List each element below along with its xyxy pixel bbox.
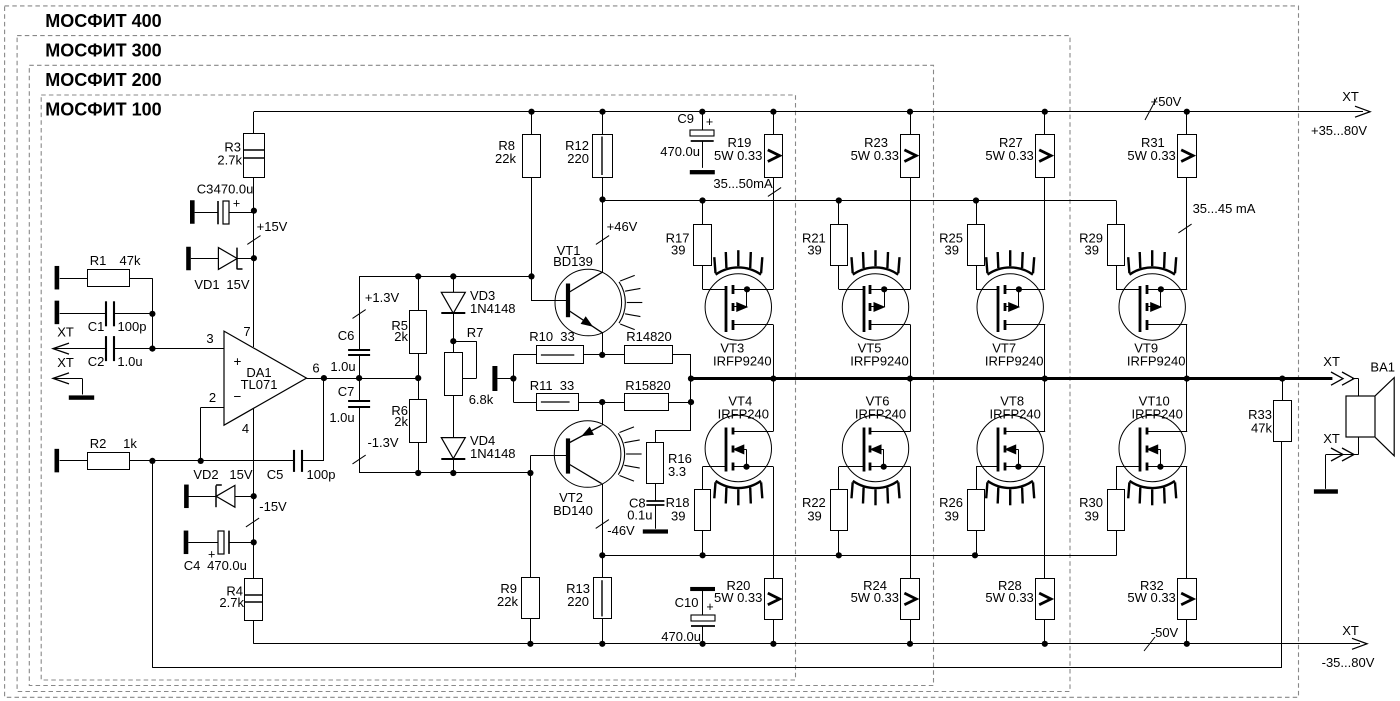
svg-text:+50V: +50V [1151,94,1182,109]
XT terminal input [53,325,74,355]
resistor R24 0.33 5W [851,578,920,620]
svg-text:C6: C6 [338,328,355,343]
capacitor C5 100p [267,450,336,482]
wire feedback return [152,442,1281,668]
wire R15 to bus [668,402,691,404]
svg-text:+: + [706,115,713,129]
node 35...50mA label [713,176,781,196]
wire R13 to -50V rail [602,619,604,644]
svg-text:C10: C10 [675,595,699,610]
resistor R6 2k [391,400,426,443]
wire VT2 base [530,456,566,578]
svg-text:22k: 22k [497,594,518,609]
svg-text:XT: XT [1323,354,1340,369]
terminal bar VD1 [186,247,191,271]
wire R22 gate path [839,467,864,556]
diode VD4 1N4148 [441,433,515,461]
svg-text:100p: 100p [307,467,336,482]
wire bus to speaker [1352,379,1359,396]
wire VT6 drain to bus [910,379,912,432]
svg-text:3.3: 3.3 [668,464,686,479]
capacitor C7 1.0u [329,384,370,425]
resistor R19 0.33 5W [714,135,783,178]
XT terminal -35...80V [1322,623,1375,670]
wire VD4 [453,395,455,437]
wire VT2 collector to -46V rail [599,484,605,559]
wire VT8 drain to bus [1044,379,1046,432]
ground speaker return [1314,489,1338,493]
module boundary МОСФИТ 100 [41,95,795,680]
wire VD3 [453,276,455,292]
wire to input ground [53,378,83,394]
svg-text:5W 0.33: 5W 0.33 [851,590,899,605]
ground C9 [690,170,715,174]
resistor R15 820 [625,378,671,411]
wire R24 column [910,467,912,644]
wire +50V rail [254,109,1363,115]
svg-text:5W 0.33: 5W 0.33 [714,148,762,163]
svg-text:2k: 2k [394,329,408,344]
svg-text:2.7k: 2.7k [219,595,244,610]
svg-text:15V: 15V [226,277,249,292]
svg-text:470.0u: 470.0u [660,144,700,159]
resistor R3 2.7k [217,134,264,178]
wire C5 to op-amp output [302,378,324,461]
wire R3 top to +50V rail [253,112,255,134]
wire R19 column [773,112,775,290]
resistor R20 0.33 5W [714,578,783,620]
svg-text:39: 39 [945,243,959,258]
wire bias top row [359,273,535,349]
svg-text:470.0u: 470.0u [207,558,247,573]
svg-text:IRFP9240: IRFP9240 [1127,354,1186,369]
terminal bar C3 [190,200,195,224]
svg-text:35...45 mA: 35...45 mA [1193,201,1256,216]
node 35...45 mA label [1178,201,1255,233]
ground C10 [690,587,715,591]
wire R27 column [1044,112,1046,290]
transistor VT2 BD140 [553,421,621,518]
svg-text:15V: 15V [229,467,252,482]
svg-text:C3: C3 [197,182,214,197]
svg-text:100p: 100p [118,319,147,334]
resistor R9 22k [497,578,539,619]
svg-text:+15V: +15V [257,219,288,234]
svg-text:R1: R1 [90,253,107,268]
node -15V label [246,499,287,527]
svg-text:-46V: -46V [607,523,635,538]
wire -50V rail [254,641,1360,647]
svg-text:39: 39 [945,509,959,524]
resistor R14 820 [625,329,673,364]
svg-text:6.8k: 6.8k [469,392,494,407]
wire -46V gate rail [602,552,1116,558]
wire op-amp pin 2 to R2 node [201,407,225,461]
svg-text:2: 2 [209,390,216,405]
resistor R33 47k [1248,401,1291,442]
svg-text:1.0u: 1.0u [329,410,354,425]
svg-text:IRFP9240: IRFP9240 [985,354,1044,369]
svg-text:5W 0.33: 5W 0.33 [1127,148,1175,163]
wire VT5 drain to bus [910,325,912,379]
wire op-amp output [307,375,422,381]
svg-text:-15V: -15V [259,499,287,514]
ground C8 [643,529,668,533]
capacitor C1 100p [88,301,147,334]
diode VD2 zener 15V [188,467,253,507]
svg-text:1.0u: 1.0u [117,354,142,369]
svg-text:47k: 47k [1251,421,1272,436]
resistor R11 33 [530,378,579,411]
capacitor C6 1.0u [330,328,370,374]
svg-text:-1.3V: -1.3V [367,435,398,450]
wire VT2 emitter to R11/R15 node [602,402,604,425]
wire R26 gate path [976,467,998,556]
wire R28 column [1044,467,1046,644]
resistor R30 39 [1079,490,1124,531]
svg-text:BD139: BD139 [553,254,593,269]
resistor R16 3.3 [647,443,692,484]
svg-text:BA1: BA1 [1370,360,1395,375]
wire R31 column [1186,112,1188,290]
svg-text:R11 33: R11 33 [530,378,575,393]
resistor R1 47k [88,253,141,287]
XT terminal speaker return [1323,431,1354,461]
resistor R32 0.33 5W [1127,578,1196,620]
svg-text:1N4148: 1N4148 [470,446,516,461]
wire R29 gate path [1116,201,1140,290]
svg-text:39: 39 [1085,243,1099,258]
resistor R31 0.33 5W [1127,135,1196,178]
wire R12 to VT1 collector [599,112,605,273]
wire C7 down to bias bottom row [359,407,361,473]
svg-text:+: + [234,354,242,369]
node +1.3V label [353,290,400,318]
svg-text:C7: C7 [338,384,355,399]
transistor VT7 IRFP9240 [977,274,1045,369]
resistor R29 39 [1079,225,1124,266]
wire input to op-amp pin 3 [53,346,224,352]
svg-text:47k: 47k [120,253,141,268]
wire R17 gate path [703,201,727,290]
resistor R13 220 [566,578,611,619]
resistor R17 39 [666,225,712,266]
wire R2 row [60,458,294,464]
svg-text:R10 33: R10 33 [529,329,575,344]
svg-text:2.7k: 2.7k [217,153,242,168]
speaker BA1 [1346,360,1395,456]
heatsink VT3 [716,267,761,274]
svg-text:IRFP9240: IRFP9240 [713,354,772,369]
wire R8 column [532,112,568,301]
terminal bar driver input [492,366,497,391]
svg-text:BD140: BD140 [553,503,593,518]
heatsink VT8 [988,481,1033,488]
wire R9 to -50V rail [530,619,532,644]
svg-text:5W 0.33: 5W 0.33 [851,148,899,163]
svg-text:39: 39 [807,509,821,524]
svg-text:-35...80V: -35...80V [1322,655,1375,670]
wire +15V column [251,177,257,347]
resistor R23 0.33 5W [851,135,920,178]
svg-text:TL071: TL071 [241,377,278,392]
capacitor C4 470.0u [184,531,254,573]
transistor VT10 IRFP240 [1119,394,1187,482]
svg-text:VD1: VD1 [194,277,219,292]
svg-text:3: 3 [206,331,213,346]
svg-text:XT: XT [1342,89,1359,104]
resistor R22 39 [802,490,848,531]
svg-text:+35...80V: +35...80V [1311,123,1367,138]
svg-text:C5: C5 [267,467,284,482]
resistor R18 39 [666,490,711,531]
svg-text:470.0u: 470.0u [214,182,254,197]
wire R30 gate path [1116,467,1140,556]
wire R23 column [910,112,912,290]
svg-text:5W 0.33: 5W 0.33 [985,148,1033,163]
heatsink VT1 [619,282,625,323]
svg-text:R15820: R15820 [625,378,671,393]
resistor R25 39 [939,225,984,266]
svg-text:C4: C4 [184,558,201,573]
heatsink VT9 [1130,267,1175,274]
svg-text:МОСФИТ 400: МОСФИТ 400 [45,11,161,31]
svg-text:220: 220 [567,594,589,609]
svg-text:220: 220 [567,151,589,166]
XT terminal output [1323,354,1354,385]
wire R21 gate path [839,201,864,290]
svg-text:МОСФИТ 100: МОСФИТ 100 [45,100,161,120]
wire R1 to node [60,278,153,314]
wire -15V column [251,409,257,578]
svg-text:35...50mA: 35...50mA [713,176,773,191]
resistor R2 1k [88,436,138,470]
svg-text:VD2: VD2 [193,467,218,482]
svg-text:МОСФИТ 200: МОСФИТ 200 [45,70,161,90]
capacitor C10 470.0u [661,591,715,644]
terminal bar C1 input [55,301,60,325]
terminal bar R2 input [55,449,60,473]
resistor R26 39 [939,490,984,531]
svg-text:R7: R7 [467,325,484,340]
resistor R21 39 [802,225,848,266]
wire VT1 emitter to R10/R14 node [602,333,604,355]
diode VD3 1N4148 [441,288,515,316]
wire bias bottom row [359,470,533,476]
wire R16 to R15 node [655,402,691,443]
svg-text:IRFP240: IRFP240 [990,407,1041,422]
wire R6 [418,378,420,399]
wire speaker return [1326,437,1359,489]
svg-text:+: + [706,600,713,614]
node +50V label [1145,94,1182,120]
terminal bar VD2 [184,485,189,509]
terminal bar R1 input [55,266,60,290]
svg-text:IRFP240: IRFP240 [855,407,906,422]
transistor VT4 IRFP240 [705,394,773,482]
svg-text:+1.3V: +1.3V [365,290,400,305]
capacitor C8 0.1u [627,484,664,529]
transistor VT1 BD139 [553,243,621,336]
svg-text:XT: XT [1342,623,1359,638]
resistor R4 2.7k [219,579,262,621]
svg-text:МОСФИТ 300: МОСФИТ 300 [45,41,161,61]
wire +46V gate rail [603,197,1117,203]
transistor VT9 IRFP9240 [1119,274,1187,369]
wire VT9 drain to bus [1186,325,1188,379]
svg-text:39: 39 [671,243,685,258]
svg-text:2k: 2k [394,414,408,429]
heatsink VT4 [716,481,761,488]
heatsink VT2 [618,433,624,474]
wire R11 to node [579,399,625,405]
XT terminal input ground [53,355,74,384]
svg-text:R14820: R14820 [626,329,672,344]
heatsink VT6 [853,481,898,488]
wire output bus [688,376,1333,382]
svg-text:-50V: -50V [1151,625,1179,640]
wire R32 column [1186,467,1188,644]
capacitor C3 470.0u [195,182,254,225]
wire R33 to bus [1282,379,1284,401]
svg-text:C2: C2 [88,354,105,369]
svg-text:1k: 1k [123,436,137,451]
resistor R28 0.33 5W [985,578,1054,620]
node -50V label [1144,625,1179,651]
XT terminal +35...80V [1311,89,1370,138]
wire R10 to node [583,352,625,358]
resistor R27 0.33 5W [985,135,1054,178]
node -1.3V label [353,435,399,464]
svg-text:IRFP240: IRFP240 [718,407,769,422]
wire R18 gate path [703,467,727,556]
transistor VT5 IRFP9240 [842,274,910,369]
node +15V label [247,219,287,244]
svg-text:+46V: +46V [607,219,638,234]
heatsink VT5 [853,267,898,274]
wire C1 row [60,311,156,349]
wire VT7 drain to bus [1044,325,1046,379]
svg-text:5W 0.33: 5W 0.33 [714,590,762,605]
diode VD1 zener 15V [191,248,254,292]
wire R20 column [773,467,775,644]
capacitor C2 1.0u [88,336,143,369]
module boundary МОСФИТ 200 [29,65,933,685]
module boundary МОСФИТ 300 [17,36,1070,692]
svg-text:39: 39 [671,509,685,524]
svg-text:C9: C9 [677,111,694,126]
transistor VT8 IRFP240 [977,394,1045,482]
wire driver node [497,355,537,403]
svg-text:IRFP9240: IRFP9240 [850,354,909,369]
svg-text:39: 39 [1085,509,1099,524]
svg-text:IRFP240: IRFP240 [1132,407,1183,422]
wire VT10 drain to bus [1186,379,1188,432]
capacitor C9 470.0u [660,111,714,168]
svg-text:1N4148: 1N4148 [470,301,516,316]
svg-text:5W 0.33: 5W 0.33 [1127,590,1175,605]
ground input [69,395,94,399]
resistor R10 33 [529,329,583,364]
svg-text:5W 0.33: 5W 0.33 [985,590,1033,605]
wire C6 to C7 [359,355,361,401]
heatsink VT7 [988,267,1033,274]
trimmer R7 tap [453,325,493,407]
resistor R5 2k [391,311,426,354]
node -46V label [596,520,635,538]
svg-text:XT: XT [1323,431,1340,446]
svg-text:7: 7 [243,324,250,339]
wire R4 to -50V rail [253,621,255,644]
terminal bar C4 [184,531,189,555]
svg-text:39: 39 [807,243,821,258]
svg-text:C1: C1 [88,319,105,334]
svg-text:470.0u: 470.0u [661,629,701,644]
svg-text:XT: XT [57,325,74,340]
svg-text:R2: R2 [90,436,107,451]
svg-text:0.1u: 0.1u [627,508,652,523]
svg-text:XT: XT [57,355,74,370]
svg-text:1.0u: 1.0u [330,359,355,374]
wire R14 to bus [672,355,694,406]
resistor R8 22k [495,135,540,178]
transistor VT3 IRFP9240 [705,274,773,369]
svg-text:4: 4 [242,421,249,436]
op-amp DA1 TL071 [224,331,307,425]
wire R25 gate path [976,201,998,290]
svg-text:6: 6 [312,361,319,376]
wire VT3 drain to bus [773,325,775,379]
heatsink VT10 [1130,481,1175,488]
wire R5 [418,276,420,310]
node +46V label [596,219,638,244]
trimmer R7 6.8k [445,353,463,396]
wire VT4 drain to bus [773,379,775,432]
svg-text:+: + [233,197,240,211]
transistor VT6 IRFP240 [842,394,910,482]
resistor R12 220 [565,135,612,178]
svg-text:22k: 22k [495,151,516,166]
